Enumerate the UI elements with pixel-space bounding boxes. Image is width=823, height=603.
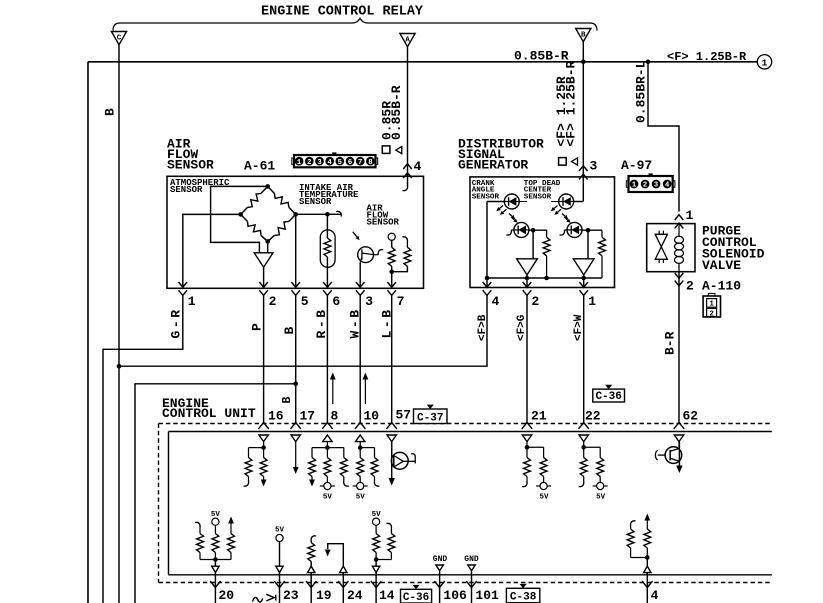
pin16 entry triangle: [259, 435, 268, 442]
svg-text:1: 1: [588, 294, 596, 309]
symbol triangle ((F)1.25B-R): [572, 158, 578, 165]
wire B-R purge to ECU: [678, 272, 680, 423]
svg-text:ENGINE CONTROL RELAY: ENGINE CONTROL RELAY: [261, 5, 424, 20]
ECU pin 10 connector: [355, 423, 365, 429]
wire P: [263, 295, 265, 422]
connector label C-36 bottom: [401, 589, 432, 603]
svg-text:CONTROL UNIT: CONTROL UNIT: [162, 406, 256, 421]
svg-text:B-R: B-R: [663, 331, 678, 355]
svg-text:VALVE: VALVE: [702, 258, 741, 273]
distributor box: [470, 177, 615, 288]
GND triangle 101: [468, 565, 476, 571]
signal arrow pin 8: [332, 378, 334, 404]
terminal circle 1: [757, 55, 771, 69]
valve symbol: [655, 234, 667, 259]
pin22 wire: [583, 442, 585, 448]
svg-text:<F> 1.25B-R: <F> 1.25B-R: [667, 50, 747, 64]
svg-text:6: 6: [348, 159, 352, 167]
node crank output: [531, 228, 536, 233]
amp U2 crank: [517, 259, 538, 275]
svg-text:10: 10: [364, 409, 380, 424]
svg-text:8: 8: [368, 159, 372, 167]
hook R9: [344, 481, 349, 486]
svg-text:A-97: A-97: [621, 158, 652, 173]
ECU dashed border left: [158, 424, 160, 583]
pin20 wire out: [214, 573, 216, 603]
resistor R7: [311, 448, 313, 458]
ECU pin 62 connector: [674, 423, 684, 429]
stub to hook: [327, 213, 341, 215]
phototransistor Q2 arrows: [509, 214, 512, 217]
junction at B wire / rail: [581, 60, 586, 65]
connector label C-38: [506, 588, 539, 602]
symbol square (0.85R): [382, 146, 390, 154]
wire G-R: [103, 295, 183, 603]
pin24 wire out: [342, 573, 344, 603]
svg-text:5V: 5V: [356, 494, 366, 502]
node afs resistors: [389, 269, 394, 274]
distributor pin 1 marker: [579, 282, 588, 287]
afs resistor R1: [388, 247, 395, 266]
svg-text:C-36: C-36: [403, 592, 429, 603]
ECU pin 24 connector: [338, 581, 348, 587]
svg-text:5V: 5V: [596, 494, 606, 502]
pin21 entry triangle: [522, 435, 531, 442]
ECU pin 17 connector: [291, 423, 301, 429]
AFS pin 7 marker: [387, 282, 396, 287]
svg-text:2: 2: [269, 294, 277, 309]
wire 0.85R/0.85B-R from relay A: [407, 47, 409, 186]
svg-text:23: 23: [283, 588, 299, 603]
svg-text:4: 4: [414, 159, 422, 174]
wire to pin 7: [391, 272, 393, 289]
pin19 hook: [311, 536, 316, 541]
bridge feedback loop wire: [211, 186, 268, 252]
svg-text:57: 57: [396, 408, 412, 423]
svg-text:2: 2: [709, 310, 714, 318]
5V supply pin20: [212, 518, 219, 525]
amp U2 output wire: [526, 275, 528, 288]
ECU dashed border top: [159, 423, 772, 425]
resistor R4 tdc: [601, 230, 603, 237]
svg-text:1: 1: [297, 159, 302, 167]
ECU pin 21 connector: [522, 423, 532, 429]
wire (F)B: [119, 295, 487, 366]
LED D1 cathode wire: [486, 202, 488, 289]
svg-text:<F>G: <F>G: [516, 314, 528, 341]
pin57 wire: [391, 442, 393, 454]
distributor pin 4 marker: [483, 282, 492, 287]
phototransistor Q2 hook: [511, 229, 514, 231]
symbol square ((F)1.25R): [559, 158, 567, 166]
resistor R13: [543, 447, 545, 457]
pin21 wire: [526, 442, 528, 448]
afs resistor R1 wire: [391, 240, 393, 247]
svg-text:2: 2: [686, 279, 694, 294]
svg-text:22: 22: [585, 409, 601, 424]
ECU pin 22 connector: [579, 423, 589, 429]
svg-text:3: 3: [654, 182, 658, 190]
wire (F)1.25R/(F)1.25B-R from relay B: [582, 42, 584, 202]
bridge resistor top-left: [248, 193, 262, 207]
thermistor wire bottom (pin 6): [326, 257, 328, 288]
svg-text:L-B: L-B: [380, 307, 395, 338]
pin19 wire out: [310, 573, 312, 603]
afs transistor output wire (pin 3): [359, 262, 361, 288]
junction at 0.85BR-L / rail: [646, 60, 651, 65]
resistor R17: [214, 525, 216, 533]
pin10 entry triangle: [356, 435, 365, 442]
LED D1 wires: [487, 201, 504, 203]
AFS pin 4 internal hook: [403, 186, 408, 191]
svg-text:<F>W: <F>W: [573, 314, 585, 341]
bridge wire bl: [241, 214, 248, 221]
resistor R18: [228, 534, 235, 553]
hook R14: [579, 482, 584, 487]
pin14 wire out: [375, 573, 377, 603]
svg-text:B: B: [581, 31, 586, 39]
svg-text:0.85B-R: 0.85B-R: [514, 49, 569, 64]
amp output wire (pin 2): [263, 267, 265, 288]
hook R12: [522, 482, 527, 487]
resistor R22: [630, 526, 632, 529]
svg-text:17: 17: [300, 409, 316, 424]
LED D2 emission arrows: [554, 206, 558, 209]
wire L-B: [391, 295, 393, 422]
wire right vertex to thermistor: [296, 213, 328, 215]
node pin22: [581, 445, 586, 450]
svg-text:20: 20: [219, 588, 235, 603]
amp U3 tdc: [573, 259, 594, 275]
wire node to amp2: [587, 230, 589, 259]
resistor R8: [326, 448, 328, 458]
transistor Q5 base hook: [655, 450, 657, 460]
ECU inner box left: [168, 432, 170, 575]
svg-text:7: 7: [358, 159, 362, 167]
svg-text:1: 1: [632, 182, 637, 190]
resistor R21: [388, 534, 395, 553]
svg-text:B: B: [282, 327, 297, 335]
amp U3 output wire: [583, 275, 585, 288]
purge control solenoid valve box: [647, 224, 695, 272]
svg-text:SENSOR: SENSOR: [472, 193, 500, 201]
signal arrow pin 10: [364, 378, 366, 404]
ECU pin 19 connector: [306, 581, 316, 587]
svg-text:5V: 5V: [211, 511, 221, 519]
bridge resistor top-right: [274, 193, 289, 207]
svg-text:62: 62: [683, 409, 699, 424]
distributor pin 3 marker arrows: [579, 166, 588, 171]
connector label C-36 top: [593, 389, 625, 402]
svg-text:5: 5: [338, 159, 342, 167]
wire (F)G: [526, 295, 528, 422]
pin101 wire: [471, 571, 473, 603]
svg-text:C-37: C-37: [417, 412, 443, 424]
resistor R6: [263, 448, 265, 458]
node rail-amp2: [581, 276, 586, 281]
svg-text:7: 7: [397, 294, 405, 309]
pin23 wire out: [279, 573, 281, 603]
svg-text:5V: 5V: [275, 527, 285, 535]
pin62 wire: [678, 442, 680, 447]
wire B branch: [135, 384, 296, 603]
svg-text:SENSOR: SENSOR: [367, 218, 400, 228]
wire (F)W: [583, 295, 585, 422]
svg-text:24: 24: [347, 588, 363, 603]
LED D1 crank: [504, 194, 519, 209]
GND triangle 106: [436, 565, 444, 571]
svg-text:GND: GND: [464, 555, 479, 564]
pin8 wire: [326, 442, 328, 448]
svg-text:4: 4: [665, 182, 670, 190]
bridge node left: [238, 212, 243, 217]
wire node to amp1: [532, 230, 534, 259]
ECU pin 57 connector: [387, 423, 397, 429]
transistor Q5 emitter arrow: [676, 466, 682, 474]
resistor R11: [374, 448, 376, 458]
svg-text:101: 101: [475, 588, 499, 603]
node pin8: [325, 445, 330, 450]
svg-text:A-61: A-61: [244, 159, 275, 174]
svg-text:P: P: [250, 323, 265, 331]
svg-text:6: 6: [332, 294, 340, 309]
air flow sensor box: [167, 176, 424, 288]
svg-text:C-38: C-38: [510, 592, 537, 603]
phototransistor Q3: [567, 222, 582, 237]
resistor R9: [343, 448, 345, 458]
svg-text:4: 4: [651, 588, 659, 603]
svg-text:<F> 1.25B-R: <F> 1.25B-R: [564, 60, 579, 146]
svg-text:A: A: [405, 36, 410, 44]
distributor pin 2 marker: [523, 282, 532, 287]
pin8 entry triangle: [323, 435, 332, 442]
svg-text:SENSOR: SENSOR: [299, 197, 332, 207]
svg-text:A-110: A-110: [702, 279, 741, 294]
node pin4ecu: [645, 555, 650, 560]
thermistor capsule: [320, 230, 335, 267]
pin14 rail: [376, 559, 391, 561]
purge pin 2 marker: [675, 273, 684, 278]
resistor R3 crank: [546, 230, 548, 237]
pin62 entry triangle: [674, 435, 683, 442]
pin4ecu left hook: [631, 521, 636, 526]
svg-text:106: 106: [443, 588, 467, 603]
wire pin3 internal: [582, 201, 585, 203]
pin10 wire: [359, 442, 361, 448]
atmospheric amp U1: [254, 253, 273, 267]
pin106 wire: [439, 571, 441, 603]
connector label C-37: [414, 409, 448, 424]
bridge node top: [265, 184, 270, 189]
transistor Q5: [678, 442, 680, 468]
relay terminal B: [576, 29, 591, 42]
svg-text:1: 1: [686, 208, 694, 223]
connector A-61: [294, 155, 376, 167]
5V supply pin22: [597, 482, 604, 489]
pin57 entry triangle: [387, 435, 396, 442]
thermistor wire top: [326, 214, 328, 238]
svg-text:2: 2: [643, 182, 647, 190]
ECU pin 4 connector: [642, 581, 652, 587]
afs transistor Q1: [358, 247, 374, 263]
pin4ecu wire out: [646, 573, 648, 603]
svg-text:0.85BR-L: 0.85BR-L: [634, 60, 649, 123]
resistor R12: [526, 447, 528, 457]
svg-text:16: 16: [268, 409, 284, 424]
crossover squiggle: [253, 597, 263, 602]
svg-text:2: 2: [532, 294, 540, 309]
wire B from relay C: [118, 45, 120, 603]
arrow R6 ground: [261, 480, 267, 487]
svg-text:0.85B-R: 0.85B-R: [389, 85, 404, 140]
pin17 wire: [295, 442, 297, 467]
LED D2 tdc: [559, 194, 574, 209]
hook R5: [244, 481, 249, 486]
AFS pin 4 marker arrows: [403, 164, 412, 169]
solenoid coil L1: [678, 224, 680, 237]
svg-text:21: 21: [531, 409, 547, 424]
node thermistor top: [325, 212, 330, 217]
phototransistor Q3 hook: [565, 229, 568, 231]
svg-text:B: B: [103, 108, 118, 116]
svg-text:1: 1: [762, 58, 768, 69]
5V supply pin14: [373, 518, 380, 525]
resistor R5: [248, 448, 250, 458]
afs resistor joint wire: [391, 266, 393, 271]
node rail-r3: [544, 276, 549, 281]
AFS pin 6 marker: [323, 282, 332, 287]
node B/pin17: [293, 382, 298, 387]
symbol triangle (0.85B-R): [396, 147, 402, 154]
svg-text:19: 19: [316, 588, 332, 603]
svg-text:8: 8: [331, 409, 339, 424]
wire B pin5: [295, 295, 297, 422]
pin23 exit triangle: [276, 566, 283, 572]
brace under title: [113, 18, 597, 30]
ECU pin 16 connector: [258, 423, 268, 429]
svg-text:3: 3: [317, 159, 321, 167]
pin19 exit triangle: [308, 566, 315, 572]
AFS pin 1 marker: [179, 282, 188, 287]
bridge resistor bottom-right: [274, 221, 289, 235]
ECU inner box bottom: [169, 574, 772, 576]
node tdc output: [586, 228, 591, 233]
pin24 exit triangle: [340, 566, 347, 572]
node pin20: [213, 557, 218, 562]
pin24 wire: [328, 544, 344, 567]
svg-text:SENSOR: SENSOR: [167, 158, 214, 173]
node B junction: [117, 364, 122, 369]
pin23 wire: [279, 542, 281, 567]
5V supply pin10: [357, 482, 364, 489]
transistor Q4 emitter arrow: [389, 478, 395, 486]
pin14 right hook: [390, 529, 392, 534]
ECU pin 20 connector: [210, 581, 220, 587]
bridge wire tr: [268, 186, 275, 193]
afs transistor hook: [374, 254, 379, 256]
connector A-110: [703, 296, 720, 317]
svg-text:<F>B: <F>B: [477, 314, 489, 341]
svg-text:1: 1: [188, 294, 196, 309]
pin16 wire: [263, 442, 265, 448]
afs resistor R2: [404, 247, 411, 266]
resistor R15: [599, 447, 601, 457]
resistor R16: [199, 528, 201, 534]
ECU pin 23 connector: [274, 581, 284, 587]
thermistor resistor: [324, 238, 331, 257]
ECU pin 101 connector: [466, 581, 476, 587]
pin4ecu up arrow: [644, 514, 650, 521]
node rail-left: [485, 276, 490, 281]
resistor R20: [375, 525, 377, 533]
left border wire: [87, 62, 89, 603]
AFS pin 3 marker: [356, 282, 365, 287]
svg-text:W-B: W-B: [348, 307, 363, 338]
node rail-amp1: [525, 276, 530, 281]
svg-text:3: 3: [590, 159, 598, 174]
pin20 exit triangle: [214, 560, 216, 567]
svg-text:5V: 5V: [323, 494, 333, 502]
svg-text:14: 14: [379, 588, 395, 603]
svg-text:R-B: R-B: [314, 307, 329, 338]
phototransistor Q2: [514, 222, 529, 237]
AFS pin 5 marker: [291, 282, 300, 287]
svg-text:5V: 5V: [539, 494, 549, 502]
5V supply pin8: [324, 482, 331, 489]
arrow R7 ground: [309, 480, 315, 487]
pin20 rail: [200, 559, 231, 561]
connector A-97: [629, 176, 673, 192]
5V supply pin21: [540, 482, 547, 489]
distributor internal rail: [487, 277, 602, 279]
hook R11: [374, 481, 379, 486]
wire R-B: [326, 295, 328, 422]
bridge wire br: [289, 214, 296, 221]
wire 0.85BR-L: [648, 62, 679, 212]
svg-text:4: 4: [492, 294, 500, 309]
resistor R10: [359, 448, 361, 458]
pin24 arrow: [325, 550, 331, 557]
svg-text:1: 1: [709, 301, 714, 309]
pin22 entry triangle: [579, 435, 588, 442]
bridge resistor bottom-left: [248, 221, 262, 235]
svg-text:C: C: [117, 34, 122, 42]
purge pin 1 marker: [675, 215, 684, 220]
relay terminal C: [111, 32, 126, 45]
afs transistor input arrow: [353, 232, 357, 237]
pin17 entry triangle: [291, 435, 300, 442]
hook end of stub: [336, 211, 341, 216]
svg-text:3: 3: [365, 294, 373, 309]
svg-text:4: 4: [328, 159, 333, 167]
phototransistor Q3 arrows: [562, 214, 565, 217]
bridge wire tl: [261, 186, 268, 193]
relay terminal A: [400, 34, 415, 47]
ECU inner box top: [169, 431, 772, 433]
resistor R19: [310, 541, 312, 543]
wire Q3 to node: [582, 229, 602, 231]
wire Q2 to node: [529, 229, 547, 231]
svg-text:2: 2: [307, 159, 311, 167]
bridge left to pin1 wire: [183, 214, 241, 288]
arrow pin17 ground: [293, 467, 299, 474]
wire 0.85B-R top rail: [88, 61, 757, 63]
svg-text:SENSOR: SENSOR: [524, 193, 552, 201]
ECU pin 8 connector: [322, 423, 332, 429]
node pin10: [358, 445, 363, 450]
svg-text:G-R: G-R: [169, 307, 184, 338]
bridge node bottom: [265, 239, 270, 244]
